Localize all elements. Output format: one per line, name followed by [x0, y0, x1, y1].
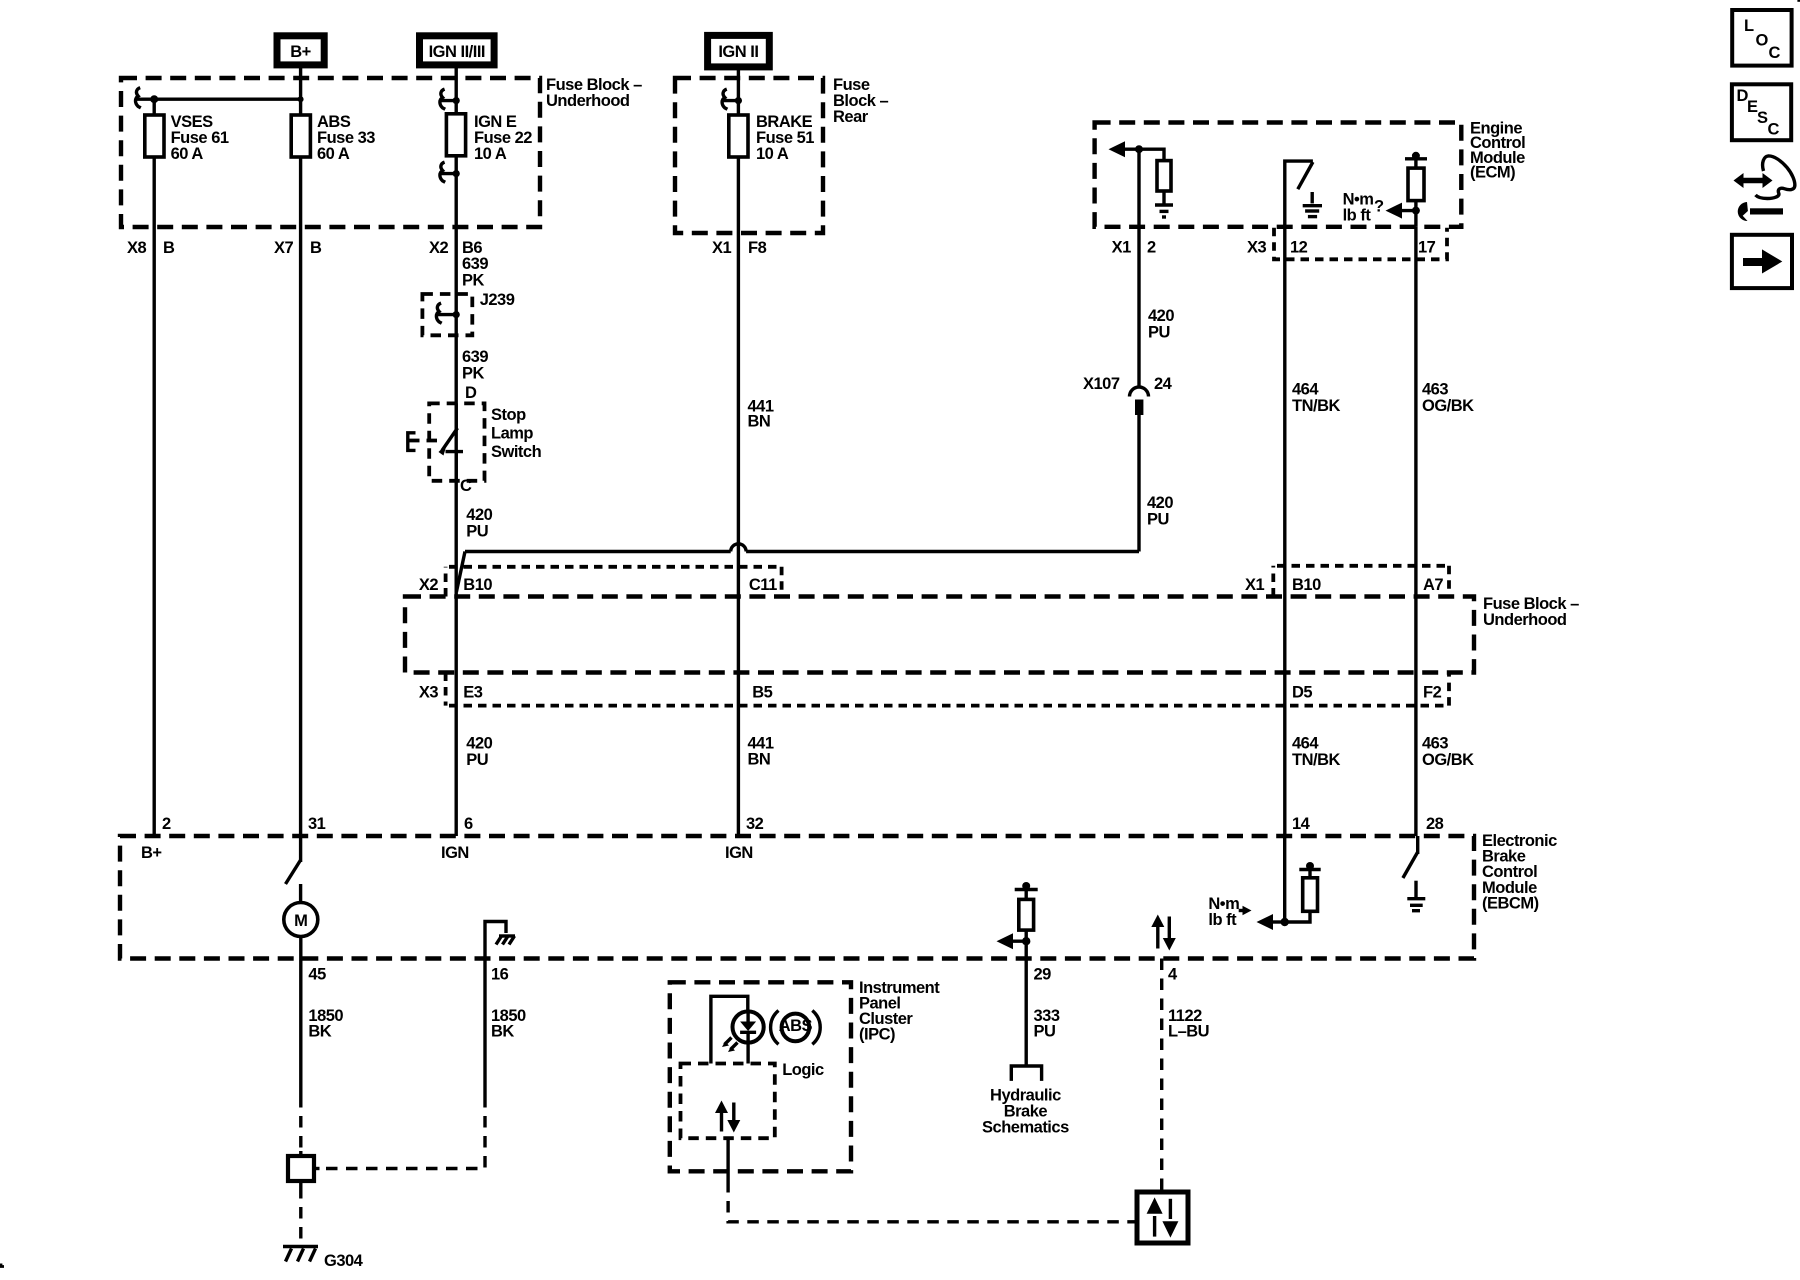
svg-text:ABS: ABS: [779, 1017, 813, 1035]
stop lamp switch blade: [439, 403, 464, 480]
label fuse VSES: [171, 113, 229, 163]
svg-text:OG/BK: OG/BK: [1422, 751, 1474, 769]
svg-text:IGN II/III: IGN II/III: [429, 43, 485, 61]
svg-text:PK: PK: [462, 365, 485, 383]
connector terminal hook below IGN E fuse: [440, 162, 460, 182]
svg-text:X3: X3: [1247, 239, 1267, 257]
svg-text:D5: D5: [1292, 684, 1312, 702]
svg-text:10 A: 10 A: [756, 145, 789, 163]
wire label 333 PU: [1034, 1007, 1060, 1041]
label fuse BRAKE: [756, 113, 814, 163]
ECM internal ground (pin 2 circuit): [1155, 205, 1173, 217]
splice J239 terminal hook: [436, 303, 460, 323]
wire label 463 OG/BK (lower): [1422, 735, 1474, 770]
svg-text:O: O: [1756, 32, 1769, 50]
svg-text:(ECM): (ECM): [1470, 164, 1515, 182]
ground G304: [283, 1247, 364, 1271]
label hydraulic brake schematics: [982, 1087, 1069, 1137]
svg-text:BN: BN: [748, 413, 771, 431]
LED light emission arrows: [722, 1038, 738, 1053]
wire 1850 BK (pin 16) solid part: [483, 959, 486, 1097]
wire label 639 PK (upper): [462, 255, 488, 290]
wire 1850 BK (pin 16) dashed continuation: [320, 1096, 486, 1169]
wire label 464 TN/BK (upper): [1292, 381, 1340, 416]
svg-text:464: 464: [1292, 381, 1319, 399]
fuse block underhood (middle) dashed box: [405, 597, 1474, 673]
label fuse IGN E: [474, 113, 532, 163]
svg-text:D: D: [465, 384, 477, 402]
hook terminal at left of B+ jumper wire: [136, 88, 141, 108]
wire from logic block dashed to serial data box: [728, 1181, 1131, 1222]
EBCM internal ground (pin 16): [485, 922, 515, 959]
EBCM internal ground (pin 28): [1407, 881, 1425, 911]
svg-text:J239: J239: [480, 291, 515, 309]
svg-text:S: S: [1757, 109, 1768, 127]
svg-text:PU: PU: [466, 523, 488, 541]
svg-text:BN: BN: [748, 751, 771, 769]
svg-text:X8: X8: [127, 239, 147, 257]
EBCM internal switch (pin 28): [1403, 836, 1418, 878]
EBCM pump motor M: [284, 903, 318, 959]
svg-text:E3: E3: [463, 684, 483, 702]
connector terminal hook above BRAKE fuse: [722, 89, 742, 109]
svg-text:L–BU: L–BU: [1168, 1023, 1209, 1041]
IPC logic block dashed box: [681, 1064, 775, 1139]
svg-text:X3: X3: [419, 684, 439, 702]
svg-text:14: 14: [1292, 815, 1311, 833]
torque note N·m lb ft ? (ECM): [1343, 191, 1384, 225]
svg-text:420: 420: [466, 735, 492, 753]
svg-text:28: 28: [1426, 815, 1444, 833]
svg-text:420: 420: [1148, 307, 1174, 325]
connector label X2 B6: [429, 239, 482, 257]
svg-text:X107: X107: [1083, 375, 1120, 393]
wire to G304 dashed: [299, 1187, 302, 1246]
svg-text:A7: A7: [1423, 576, 1443, 594]
svg-text:29: 29: [1034, 966, 1052, 984]
ECM pin 2 internal wire: [1137, 149, 1140, 227]
svg-text:C: C: [1768, 121, 1780, 139]
electronic brake control module dashed box: [120, 836, 1474, 959]
svg-text:16: 16: [491, 966, 509, 984]
junction node at ABS wire: [298, 96, 304, 102]
svg-text:2: 2: [1147, 239, 1156, 257]
svg-text:10 A: 10 A: [474, 145, 507, 163]
wire VSES feed (down to EBCM pin 2): [152, 99, 155, 836]
wire B+ jumper from hook to ABS feed: [135, 97, 301, 100]
wire label 463 OG/BK (upper): [1422, 381, 1474, 416]
ECM pin 12 internal wire: [1285, 161, 1313, 227]
wire 420 PU from ECM pin 2: [1137, 227, 1140, 387]
stop lamp switch label: [491, 406, 542, 461]
IPC ABS telltale symbol: [771, 1011, 821, 1045]
fuse IGN E Fuse 22 10 A: [446, 114, 465, 156]
svg-text:C: C: [1769, 44, 1781, 62]
svg-text:Rear: Rear: [833, 108, 869, 126]
svg-text:B5: B5: [752, 684, 772, 702]
fuse block rear label: [833, 76, 889, 126]
wire 1850 BK (pin 45) solid part: [299, 959, 302, 1097]
svg-text:6: 6: [464, 815, 473, 833]
wire label 420 PU (upper): [1148, 307, 1174, 342]
connector label X1 F8: [712, 239, 767, 257]
svg-text:TN/BK: TN/BK: [1292, 397, 1340, 415]
wire 333 PU (pin 29): [1024, 959, 1027, 1066]
wire label 420 PU (lower): [466, 735, 492, 770]
engine control module label: [1470, 119, 1525, 181]
ECM pin 17 internal wire: [1414, 211, 1417, 227]
label fuse ABS: [317, 113, 375, 163]
torque note N·m lb ft (EBCM): [1208, 895, 1251, 929]
power symbol B+ box: [277, 36, 324, 65]
wire 464 TN/BK from ECM pin 12: [1283, 227, 1286, 836]
fuse VSES Fuse 61 60 A: [145, 115, 164, 157]
svg-text:PK: PK: [462, 272, 485, 290]
svg-text:17: 17: [1418, 239, 1436, 257]
svg-text:F8: F8: [748, 239, 767, 257]
engine control module dashed box: [1095, 123, 1462, 227]
junction node at VSES wire: [150, 95, 158, 103]
wire label 464 TN/BK (lower): [1292, 735, 1340, 770]
connector labels X3 E3 B5 D5 F2: [419, 684, 1442, 702]
ECM internal switch (pin 12): [1298, 162, 1313, 189]
EBCM pin 14 wire: [1283, 836, 1286, 922]
EBCM internal signal arrow (pin 14): [1257, 914, 1285, 930]
svg-text:Schematics: Schematics: [982, 1119, 1069, 1137]
svg-text:B10: B10: [463, 576, 492, 594]
wire BRAKE feed from IGN II box down to EBCM pin 32: [737, 67, 740, 836]
serial data box with arrows: [1132, 1187, 1189, 1243]
wire label 1122 L-BU: [1168, 1007, 1209, 1041]
connector strip row1 left (X2: B10 ... C11): [446, 567, 782, 597]
svg-text:463: 463: [1422, 381, 1448, 399]
inline connector X107 terminal 24: [1083, 375, 1173, 415]
splice block: [288, 1151, 320, 1187]
icon LOC box: [1732, 10, 1791, 66]
svg-text:60 A: 60 A: [171, 145, 204, 163]
svg-text:PU: PU: [1034, 1023, 1056, 1041]
ECM internal signal arrow (pin 2): [1109, 141, 1144, 157]
ECM internal resistor (pin 2 pull-up): [1139, 149, 1171, 204]
ECM internal ground (pin 12 circuit): [1303, 192, 1322, 217]
EBCM serial data arrows (pin 4): [1151, 915, 1176, 951]
svg-text:lb ft: lb ft: [1208, 911, 1237, 929]
svg-text:31: 31: [308, 815, 326, 833]
splice J239 dashed box: [422, 294, 472, 335]
instrument panel cluster dashed box: [670, 982, 851, 1171]
svg-text:Lamp: Lamp: [491, 425, 533, 443]
svg-text:420: 420: [466, 506, 492, 524]
svg-text:24: 24: [1154, 375, 1173, 393]
ECM connector label X3 12 17: [1247, 239, 1436, 257]
wire label 441 BN (lower): [748, 735, 774, 769]
wire label 441 BN (upper): [748, 398, 774, 431]
svg-text:463: 463: [1422, 735, 1448, 753]
svg-text:IGN: IGN: [725, 844, 753, 862]
wire ABS feed from B+ box down to EBCM pin 31: [299, 65, 302, 836]
svg-text:OG/BK: OG/BK: [1422, 397, 1474, 415]
fuse block underhood (top) dashed outline: [121, 78, 540, 227]
svg-text:L: L: [1744, 17, 1754, 35]
wire label 420 PU (at X107 lower): [1147, 494, 1173, 529]
svg-text:BK: BK: [308, 1023, 331, 1041]
wire hop arc over 441 BN: [731, 544, 746, 552]
svg-text:Underhood: Underhood: [1483, 611, 1567, 629]
svg-text:32: 32: [746, 815, 764, 833]
svg-text:B: B: [163, 239, 175, 257]
svg-text:464: 464: [1292, 735, 1319, 753]
off-page bracket to hydraulic brake schematics: [1011, 1066, 1041, 1081]
ECM internal signal arrow (pin 17): [1386, 203, 1416, 219]
svg-text:C11: C11: [749, 576, 777, 594]
svg-text:PU: PU: [466, 751, 488, 769]
svg-text:X7: X7: [274, 239, 294, 257]
svg-text:45: 45: [308, 966, 326, 984]
wire from logic block (solid): [726, 1138, 729, 1181]
icon freehand pointer scribble: [1734, 156, 1795, 221]
svg-text:lb ft: lb ft: [1343, 207, 1372, 225]
svg-text:BK: BK: [491, 1023, 514, 1041]
svg-text:X1: X1: [1245, 576, 1265, 594]
connector terminal hook above IGN E fuse: [440, 89, 460, 109]
wire label 420 PU (below stop lamp switch): [466, 506, 492, 541]
icon DESC box: [1732, 84, 1791, 140]
electronic brake control module label: [1482, 832, 1557, 912]
page corner mark bottom-left: [0, 1264, 4, 1268]
svg-text:PU: PU: [1147, 511, 1169, 529]
EBCM internal resistor (pin 14): [1281, 862, 1321, 926]
EBCM internal switch (pin 31): [286, 836, 301, 903]
wire 420 PU diagonal into connector B10: [456, 552, 465, 593]
stop lamp switch dashed box: [429, 403, 484, 480]
svg-text:Underhood: Underhood: [546, 92, 630, 110]
svg-text:IGN: IGN: [441, 844, 469, 862]
fuse ABS Fuse 33 60 A: [291, 115, 310, 157]
instrument panel cluster label: [859, 979, 940, 1044]
stop lamp switch actuator bracket: [408, 433, 441, 451]
EBCM internal resistor (pin 29): [1015, 882, 1038, 945]
svg-text:X1: X1: [712, 239, 732, 257]
ECM connector X3 dotted box: [1274, 228, 1447, 259]
svg-text:IGN II: IGN II: [718, 43, 758, 61]
logic block serial data arrows: [715, 1101, 740, 1133]
connector label X7 B: [274, 239, 322, 257]
svg-text:2: 2: [162, 815, 171, 833]
svg-text:B10: B10: [1292, 576, 1321, 594]
svg-text:639: 639: [462, 255, 488, 273]
fuse BRAKE Fuse 51 10 A: [729, 115, 748, 157]
power symbol IGN II box: [708, 35, 770, 67]
svg-text:Switch: Switch: [491, 443, 542, 461]
svg-text:F2: F2: [1423, 684, 1442, 702]
wire 463 OG/BK from ECM pin 17: [1414, 227, 1417, 836]
svg-text:(IPC): (IPC): [859, 1025, 895, 1043]
svg-text:12: 12: [1290, 239, 1308, 257]
connector label X8 B: [127, 239, 175, 257]
svg-text:(EBCM): (EBCM): [1482, 894, 1539, 912]
svg-text:60 A: 60 A: [317, 145, 350, 163]
svg-text:B+: B+: [290, 43, 311, 61]
svg-text:X2: X2: [419, 576, 439, 594]
svg-text:X1: X1: [1112, 239, 1132, 257]
wire 1122 L-BU (pin 4) dashed: [1160, 959, 1163, 1188]
fuse block underhood (middle) label: [1483, 595, 1579, 629]
connector labels X2 B10 C11: [419, 576, 777, 594]
fuse block rear dashed outline: [675, 78, 823, 233]
icon forward arrow box: [1732, 235, 1792, 288]
wire IGN E feed from IGN II/III box down to EBCM pin 6: [455, 65, 458, 836]
svg-text:420: 420: [1147, 494, 1173, 512]
connector labels X1 B10 A7: [1245, 576, 1443, 594]
svg-text:X2: X2: [429, 239, 449, 257]
page corner mark top-right: [1797, 0, 1800, 2]
svg-text:TN/BK: TN/BK: [1292, 751, 1340, 769]
wire 420 PU from X107 down to junction: [1137, 415, 1140, 552]
svg-text:M: M: [294, 912, 307, 930]
wire 1850 BK (pin 45) dashed continuation: [299, 1096, 302, 1151]
svg-text:?: ?: [1374, 198, 1384, 216]
svg-text:C: C: [460, 477, 472, 495]
wire 420 PU horizontal run with hop over 441 BN: [465, 550, 1139, 553]
svg-text:639: 639: [462, 348, 488, 366]
svg-text:B: B: [310, 239, 322, 257]
svg-text:B+: B+: [141, 844, 162, 862]
fuse block underhood label: [546, 76, 642, 110]
ECM connector label X1 2: [1112, 239, 1156, 257]
svg-text:G304: G304: [324, 1252, 364, 1270]
wire label 1850 BK (pin 45): [308, 1007, 343, 1041]
svg-text:Logic: Logic: [782, 1061, 824, 1079]
connector strip row1 right (X1: B10 A7): [1273, 566, 1449, 597]
connector strip row2 (X3: E3 B5 D5 F2): [446, 673, 1449, 706]
IPC brake warning indicator LED: [711, 996, 764, 1063]
svg-text:Stop: Stop: [491, 406, 526, 424]
wire label 639 PK (lower): [462, 348, 488, 383]
svg-text:PU: PU: [1148, 324, 1170, 342]
ECM internal sensor resistor (pin 17): [1405, 152, 1427, 215]
EBCM internal signal arrow (pin 29): [997, 933, 1027, 949]
svg-text:4: 4: [1168, 966, 1178, 984]
EBCM pin 29 wire to bottom edge: [1024, 941, 1027, 958]
wire label 1850 BK (pin 16): [491, 1007, 526, 1041]
power symbol IGN II/III box: [420, 36, 495, 65]
